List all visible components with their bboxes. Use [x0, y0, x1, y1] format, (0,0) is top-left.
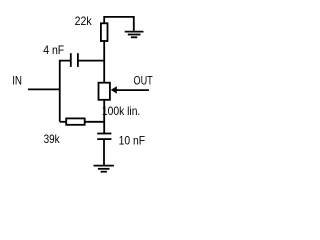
svg-text:10 nF: 10 nF: [119, 134, 146, 148]
svg-text:IN: IN: [12, 73, 22, 87]
svg-text:100k lin.: 100k lin.: [102, 104, 140, 118]
svg-text:OUT: OUT: [134, 73, 154, 87]
resistor 22k: [101, 23, 108, 41]
wire R2 to junction: [85, 121, 105, 123]
wire R1 bottom to pot top: [103, 41, 105, 83]
potentiometer P1 100k body: [99, 83, 110, 100]
wire C1 left lead and input node vertical: [60, 61, 71, 122]
capacitor C1 4nF plates: [71, 53, 78, 67]
wire bottom left to R2: [60, 121, 66, 123]
wire OUT: [116, 89, 149, 91]
ground (top right): [125, 32, 144, 38]
pot wiper arrow: [111, 86, 117, 93]
ground (bottom): [94, 166, 114, 172]
svg-text:22k: 22k: [75, 14, 93, 28]
svg-text:39k: 39k: [44, 132, 61, 146]
resistor 39k: [66, 118, 85, 124]
wire C2 to ground: [103, 139, 105, 166]
wire R1 top to ground: [104, 17, 134, 31]
capacitor C2 10nF plates: [97, 134, 111, 140]
wire IN: [28, 88, 60, 90]
wire pot bottom to C2: [103, 100, 105, 134]
wire C1 right lead to node: [78, 60, 104, 62]
svg-text:4 nF: 4 nF: [43, 43, 64, 57]
